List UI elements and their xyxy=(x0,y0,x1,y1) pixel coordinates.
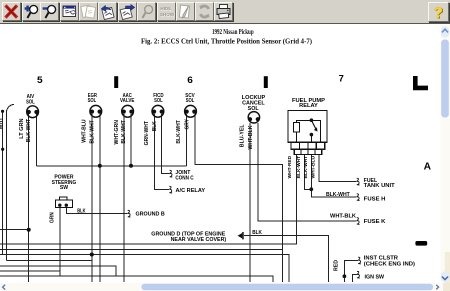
svg-text:BLK-WHT: BLK-WHT xyxy=(121,120,127,143)
wire WHT-BLK (lockup right, to fuse K) xyxy=(258,123,357,221)
component name labels xyxy=(26,93,326,191)
wire BLK (power steering right, to ground B) xyxy=(66,208,127,214)
wire: left-edge connector curve xyxy=(6,104,14,112)
svg-text:SOL: SOL xyxy=(154,98,163,104)
solenoid FICD SOL xyxy=(152,105,164,117)
wire BLK (ground D) xyxy=(244,236,328,282)
wire to IGN SW xyxy=(352,275,357,282)
svg-text:BLK-WHT: BLK-WHT xyxy=(296,156,301,179)
figure window button xyxy=(60,2,79,21)
svg-text:(CHECK ENG IND): (CHECK ENG IND) xyxy=(364,261,416,267)
wire: bottom ladder rung 7 xyxy=(0,276,273,282)
grid marker I (right) xyxy=(264,76,268,88)
figures list button (disabled) xyxy=(79,2,98,21)
wire BLK-WHT (AIV right) xyxy=(36,114,38,166)
svg-text:Fig. 2: ECCS Ctrl Unit, Thrott: Fig. 2: ECCS Ctrl Unit, Throttle Positio… xyxy=(141,38,313,46)
svg-text:NEAR VALVE COVER): NEAR VALVE COVER) xyxy=(171,237,227,243)
svg-text:7: 7 xyxy=(339,73,344,84)
svg-text:LT GRN: LT GRN xyxy=(19,118,25,139)
connector hook: inst clstr xyxy=(358,257,361,264)
node: left edge terminal xyxy=(1,110,4,113)
wire: bottom ladder rung 5 xyxy=(0,266,116,276)
vertical wire colour labels xyxy=(0,118,340,272)
horizontal scrollbar xyxy=(0,283,450,291)
close button (red X) xyxy=(2,2,21,21)
wire LT GRN (AIV left) xyxy=(28,114,30,282)
grid marker I (left) xyxy=(114,76,118,88)
valve AAC xyxy=(122,105,134,117)
node: LT GRN junction xyxy=(27,228,31,232)
svg-text:CONN C: CONN C xyxy=(175,175,194,181)
next figure button xyxy=(118,2,137,21)
help button (yellow ?) xyxy=(428,2,449,22)
wire BLK-WHT (relay pin 3, to fuse H) xyxy=(311,155,356,197)
wire: solenoid ground bus xyxy=(37,165,187,167)
svg-text:WHT-BLU: WHT-BLU xyxy=(82,119,88,143)
node: relay pins 2-3 junction xyxy=(309,187,313,191)
svg-text:GRY: GRY xyxy=(184,118,190,129)
solenoid AIV SOL xyxy=(27,106,39,118)
wire: bottom ladder rung 2 xyxy=(0,249,283,251)
wire: bottom ladder rung 4 xyxy=(6,260,92,262)
svg-text:BLK: BLK xyxy=(77,208,86,214)
svg-text:5: 5 xyxy=(37,75,43,86)
wire GRN-WHT (FICD left, to A/C relay) xyxy=(154,114,169,190)
annotate button (disabled) xyxy=(176,2,195,21)
svg-text:WHT-BLK: WHT-BLK xyxy=(248,125,254,149)
svg-text:A: A xyxy=(424,161,431,172)
vertical scrollbar xyxy=(441,25,450,291)
refresh button (disabled) xyxy=(195,2,214,21)
svg-text:IGN SW: IGN SW xyxy=(365,275,385,281)
wires and symbols xyxy=(0,104,358,282)
wire WHT-BLU (relay pin 4, to fuel tank unit) xyxy=(319,155,357,182)
connector hook: fuel tank unit xyxy=(357,178,360,185)
svg-text:GRN-WHT: GRN-WHT xyxy=(144,121,150,145)
svg-text:RED: RED xyxy=(334,260,340,271)
svg-text:1992 Nissan Pickup: 1992 Nissan Pickup xyxy=(212,28,254,36)
magnifier button (disabled) xyxy=(137,2,156,21)
svg-text:FUSE H: FUSE H xyxy=(364,196,386,202)
wire BLK-WHT (SCV left) xyxy=(185,114,187,166)
wire WHT (left edge) xyxy=(5,111,7,261)
svg-text:WHT: WHT xyxy=(0,118,4,130)
wire BLK-WHT (EGR right) xyxy=(99,114,101,282)
toolbar xyxy=(0,0,450,24)
connector hook: fuse H xyxy=(357,194,360,201)
svg-text:SOL: SOL xyxy=(186,98,195,104)
connector arrow: ground D xyxy=(238,232,244,239)
previous figure button xyxy=(98,2,117,21)
wire BLK-WHT (relay pin 2) xyxy=(305,155,312,189)
print button xyxy=(214,2,233,21)
svg-text:WHT-BLU: WHT-BLU xyxy=(310,156,315,179)
solenoid LOCKUP CANCEL SOL xyxy=(248,112,260,123)
connector hook: fuse K xyxy=(357,218,360,225)
svg-text:BLK-WHT: BLK-WHT xyxy=(303,156,308,179)
relay FUEL PUMP RELAY xyxy=(288,111,327,155)
svg-text:BLK: BLK xyxy=(252,230,262,236)
node: WHT-BLU ladder junction xyxy=(90,253,94,257)
zoom out button xyxy=(40,2,59,21)
solenoid EGR SOL xyxy=(90,105,102,117)
connector hook: ground B xyxy=(128,210,131,217)
connector hook: A/C relay xyxy=(169,186,172,193)
wire RED (to inst clstr) xyxy=(344,260,358,282)
grid marker L (right margin) xyxy=(413,76,428,90)
relay connector xyxy=(291,142,325,149)
connector hook: joint conn C xyxy=(170,170,173,177)
hide/show button (disabled) xyxy=(157,2,176,21)
wire: bottom ladder rung 6 xyxy=(0,270,60,272)
wire BLK (FICD right, to joint conn C) xyxy=(162,114,170,174)
svg-text:WHT-RED: WHT-RED xyxy=(287,156,292,179)
svg-text:VALVE: VALVE xyxy=(120,98,135,104)
svg-text:RELAY: RELAY xyxy=(299,103,318,109)
switch POWER STEERING SW xyxy=(56,197,73,207)
svg-text:FUSE K: FUSE K xyxy=(364,219,386,225)
wire BLU-YEL (lockup left) xyxy=(249,123,251,282)
svg-text:BLK-WHT: BLK-WHT xyxy=(26,119,32,142)
svg-text:SW: SW xyxy=(60,185,68,191)
svg-text:BLU-YEL: BLU-YEL xyxy=(239,124,245,147)
svg-text:A/C RELAY: A/C RELAY xyxy=(176,188,206,194)
wire GRN (power steering left) xyxy=(59,208,61,277)
svg-text:GROUND B: GROUND B xyxy=(136,212,166,218)
svg-text:BLK-WHT: BLK-WHT xyxy=(89,120,95,143)
node: RED wire junction xyxy=(343,274,347,278)
svg-text:SOL: SOL xyxy=(88,98,97,104)
svg-text:6: 6 xyxy=(187,75,193,86)
svg-text:WHT-GRN: WHT-GRN xyxy=(114,120,120,145)
node: EGR BLK-WHT to bus xyxy=(98,164,102,168)
grid marker bar (right margin) xyxy=(415,241,427,246)
svg-text:SOL: SOL xyxy=(248,106,259,112)
svg-text:BLK-WHT: BLK-WHT xyxy=(326,192,350,198)
node: left edge wire xyxy=(1,148,4,151)
wire WHT-GRN (AAC left) xyxy=(123,114,125,282)
wire: bottom ladder rung 3 xyxy=(0,255,289,283)
svg-text:WHT-BLK: WHT-BLK xyxy=(330,213,356,219)
wire GRY (SCV right) xyxy=(195,114,283,282)
connector hook: ign sw xyxy=(357,271,360,278)
wire BLK-WHT (AAC right) xyxy=(130,114,132,166)
node: AAC BLK-WHT to bus xyxy=(129,164,133,168)
wire: stub into LT GRN xyxy=(0,229,29,231)
svg-text:SOL: SOL xyxy=(26,99,35,105)
title line 1 xyxy=(141,28,313,46)
wire (left edge 2nd) xyxy=(2,111,4,254)
wire WHT-BLU (EGR left) xyxy=(91,114,93,282)
wire WHT-RED (relay pin 1) xyxy=(0,155,297,244)
svg-text:BLK: BLK xyxy=(152,121,158,131)
svg-text:TANK UNIT: TANK UNIT xyxy=(364,183,395,189)
solenoid SCV SOL xyxy=(185,105,197,117)
zoom in button xyxy=(22,2,41,21)
svg-text:BLK-WHT: BLK-WHT xyxy=(176,120,182,143)
svg-text:GRN: GRN xyxy=(49,212,55,223)
